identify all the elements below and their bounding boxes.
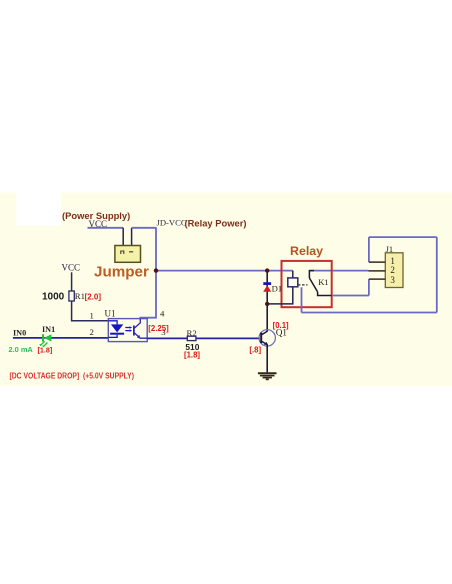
node D1 top junction — [265, 268, 269, 272]
wire JD-VCC vertical to U1 pin 4 — [140, 227, 156, 319]
svg-text:2: 2 — [390, 265, 395, 275]
svg-text:U1: U1 — [105, 308, 116, 318]
LED D-IN1 (green input LED) — [39, 334, 51, 347]
svg-text:1000: 1000 — [42, 292, 65, 303]
wire JD-VCC horizontal to relay coil — [156, 270, 293, 272]
node D1 bottom junction — [265, 302, 269, 306]
svg-text:R1: R1 — [75, 291, 85, 301]
white notch top-left — [16, 190, 61, 226]
ground — [258, 373, 277, 379]
wire emitter to ground — [266, 345, 268, 373]
dashed actuator line — [298, 284, 308, 286]
schematic background band — [0, 193, 452, 387]
pin 1 stub — [369, 261, 385, 263]
pin 2 stub — [369, 270, 386, 272]
wire VCC to R1 — [71, 272, 73, 291]
wire input IN0/IN1 to U1 pin 2 — [13, 337, 108, 339]
svg-text:IN0: IN0 — [13, 329, 26, 338]
svg-text:(Relay Power): (Relay Power) — [185, 217, 247, 228]
resistor R1 — [69, 291, 74, 301]
wire NC contact down — [301, 287, 303, 312]
svg-text:JD-VCC: JD-VCC — [157, 218, 187, 228]
diode D1 — [263, 282, 271, 292]
transistor Q1 — [259, 330, 275, 346]
svg-text:VCC: VCC — [89, 219, 108, 229]
svg-text:[1.8]: [1.8] — [38, 346, 53, 355]
svg-text:4: 4 — [160, 309, 165, 319]
wire jumper to JD-VCC (right pin) — [132, 228, 156, 246]
wire NO contact to J1 pin3 — [332, 279, 369, 295]
resistor R2 — [187, 336, 196, 340]
svg-text:[DC VOLTAGE DROP] (+5.0V SUPP: [DC VOLTAGE DROP] (+5.0V SUPPLY) — [10, 371, 135, 381]
wire collector vertical (to relay junction) — [266, 304, 268, 331]
svg-text:Jumper: Jumper — [94, 264, 149, 281]
svg-text:J1: J1 — [386, 245, 393, 254]
svg-text:Relay: Relay — [290, 244, 323, 258]
svg-text:[1.8]: [1.8] — [184, 350, 200, 359]
svg-text:[2.25]: [2.25] — [148, 324, 169, 333]
jumper JP (box) — [115, 246, 141, 263]
connector J1 — [385, 253, 403, 288]
node JD-VCC junction — [154, 268, 158, 272]
phototransistor inside U1 — [134, 319, 147, 339]
svg-text:[2.0]: [2.0] — [85, 292, 102, 301]
switch K1 contacts — [309, 271, 331, 296]
svg-text:VCC: VCC — [62, 262, 81, 272]
svg-text:1: 1 — [90, 310, 94, 320]
wire VCC to jumper (left) — [88, 228, 124, 246]
wire switch common to J1 pin 2 — [309, 270, 368, 272]
relay outline box (red) — [282, 261, 332, 307]
wire R2 to Q1 base — [196, 337, 260, 339]
svg-text:Q1: Q1 — [276, 327, 287, 337]
svg-text:3: 3 — [390, 275, 395, 285]
wire D1 branch vertical — [266, 271, 268, 304]
wire bottom route to J1 pin1 — [302, 237, 437, 312]
wire coil top — [292, 271, 294, 278]
wire R1 to U1 pin 1 — [72, 301, 109, 321]
op-amp U1 optocoupler box — [108, 319, 147, 342]
svg-text:IN1: IN1 — [42, 325, 55, 334]
wire coil bottom to junction — [267, 287, 293, 304]
relay coil K1 — [288, 278, 298, 287]
svg-text:R2: R2 — [187, 328, 197, 338]
LED inside U1 — [109, 321, 125, 338]
wire U1 pin 3 to R2 — [147, 337, 187, 339]
svg-text:2.0 mA: 2.0 mA — [9, 345, 34, 354]
svg-text:2: 2 — [90, 327, 94, 337]
svg-text:K1: K1 — [318, 277, 329, 287]
coupling arrows inside U1 — [125, 326, 132, 332]
svg-text:[.8]: [.8] — [249, 345, 261, 354]
pin 3 stub — [369, 278, 385, 280]
